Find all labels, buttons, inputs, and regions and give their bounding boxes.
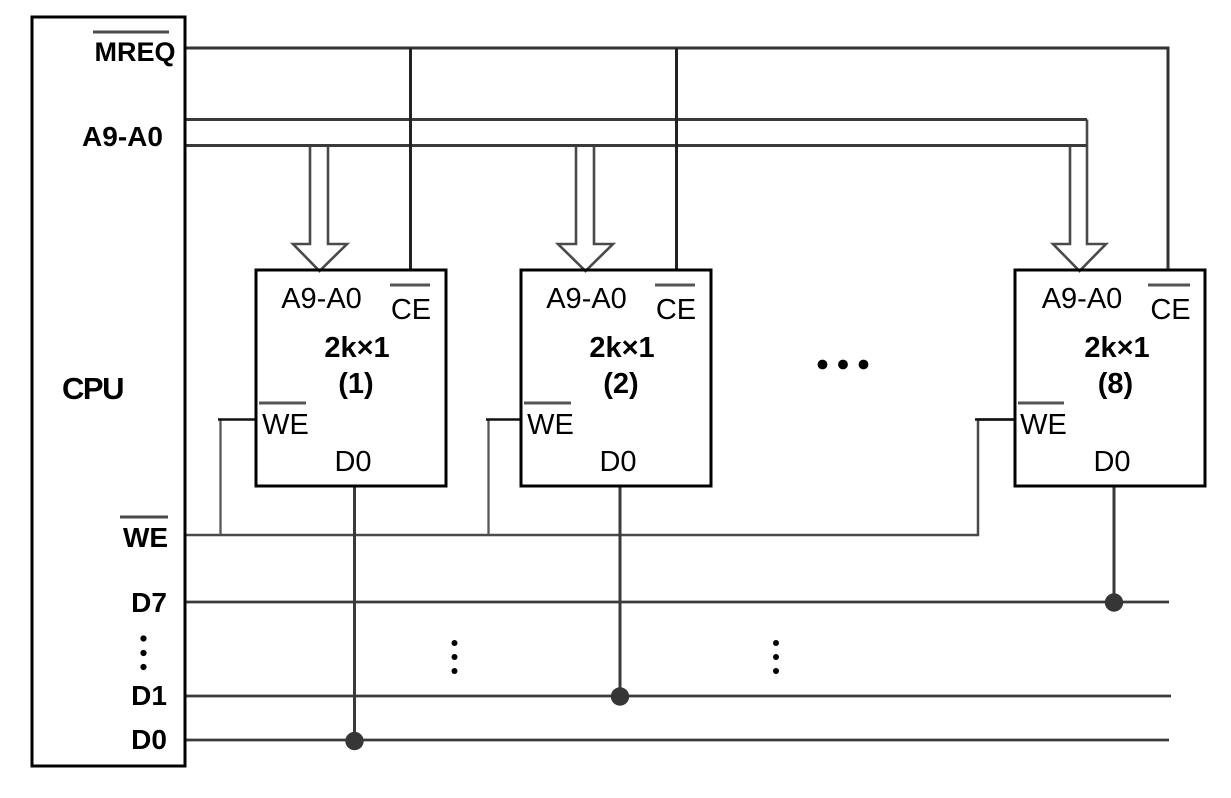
svg-text:A9-A0: A9-A0	[82, 121, 163, 152]
svg-text:CE: CE	[391, 294, 431, 326]
svg-text:(1): (1)	[338, 368, 373, 400]
svg-text:2k×1: 2k×1	[1084, 332, 1149, 364]
svg-text:A9-A0: A9-A0	[1042, 283, 1123, 315]
svg-text:D7: D7	[131, 587, 167, 618]
svg-text:D0: D0	[599, 446, 636, 478]
svg-text:WE: WE	[1020, 409, 1067, 441]
svg-text:D1: D1	[131, 680, 167, 711]
svg-text:CE: CE	[1150, 294, 1190, 326]
svg-text:A9-A0: A9-A0	[546, 283, 627, 315]
svg-text:(8): (8)	[1098, 368, 1133, 400]
svg-text:A9-A0: A9-A0	[281, 283, 362, 315]
svg-text:2k×1: 2k×1	[589, 332, 654, 364]
svg-text:CE: CE	[656, 294, 696, 326]
svg-text:D0: D0	[334, 446, 371, 478]
svg-text:WE: WE	[527, 409, 574, 441]
svg-text:2k×1: 2k×1	[324, 332, 389, 364]
svg-text:MREQ: MREQ	[95, 37, 176, 67]
svg-text:WE: WE	[262, 409, 309, 441]
svg-text:WE: WE	[123, 522, 168, 553]
svg-text:D0: D0	[131, 724, 167, 755]
svg-text:D0: D0	[1093, 446, 1130, 478]
svg-text:(2): (2)	[603, 368, 638, 400]
svg-text:CPU: CPU	[62, 371, 123, 406]
